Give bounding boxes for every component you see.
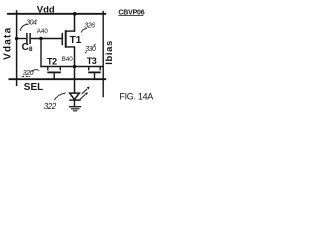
leader for 322 <box>54 93 66 100</box>
LED D1 triangle <box>70 93 80 99</box>
wire Ibias line <box>102 11 104 98</box>
LED emission arrow 2 <box>80 95 85 100</box>
leader for 326 <box>81 29 87 33</box>
node A40 junction dot <box>39 37 42 40</box>
svg-text:A40: A40 <box>37 28 49 35</box>
wire node B40 horizontal <box>40 66 103 68</box>
wire LED cathode to ground <box>74 100 76 106</box>
transistor T1 gate bar <box>61 33 63 45</box>
svg-text:CBVP06: CBVP06 <box>118 9 144 16</box>
svg-text:326: 326 <box>84 22 95 29</box>
svg-text:320: 320 <box>23 70 34 77</box>
LED emission arrow 1 <box>82 89 87 94</box>
svg-text:322: 322 <box>44 102 57 111</box>
LED emission arrowhead 2 <box>85 92 88 95</box>
wire Vdata data line <box>16 10 18 86</box>
tick marks under 320 <box>22 76 24 77</box>
svg-text:B40: B40 <box>62 56 74 63</box>
wire T1 source lead to Vdd <box>66 30 76 32</box>
wire T3 gate lead to SEL <box>94 72 96 79</box>
leader for 320 <box>32 70 39 72</box>
ground <box>69 106 81 108</box>
wire A40 branch to T2 <box>40 39 42 68</box>
wire SEL line <box>9 78 107 80</box>
node B40 junction dot <box>73 65 77 69</box>
leader for 330 <box>94 44 96 46</box>
svg-text:C8: C8 <box>22 42 33 53</box>
wire T1 drain lead down to LED <box>66 46 76 48</box>
wire Vdd rail <box>7 13 106 15</box>
junction dot Vdd-Vdata <box>15 13 18 16</box>
svg-text:T3: T3 <box>87 56 97 66</box>
transistor T2 source/drain stubs <box>47 67 49 71</box>
svg-text:SEL: SEL <box>24 82 43 93</box>
LED emission arrowhead 1 <box>87 86 90 89</box>
underline of CBVP06 <box>118 14 143 16</box>
capacitor C8 plates <box>26 33 28 44</box>
junction dot Vdd-T1 source <box>73 12 77 16</box>
svg-text:Vdd: Vdd <box>37 5 55 16</box>
transistor T2 gate bar <box>47 71 61 73</box>
leader for 304 <box>20 24 28 31</box>
wire T2 gate lead to SEL <box>53 72 55 79</box>
svg-text:Ibias: Ibias <box>104 40 115 65</box>
svg-text:FIG. 14A: FIG. 14A <box>119 91 153 101</box>
transistor T3 gate bar <box>88 71 101 73</box>
wire capacitor wire node A40 <box>17 38 27 40</box>
svg-text:330: 330 <box>85 46 96 53</box>
svg-text:T2: T2 <box>47 57 57 67</box>
svg-text:T1: T1 <box>70 35 82 46</box>
svg-text:Vdata: Vdata <box>3 27 14 60</box>
junction dot Vdata-cap <box>15 37 18 40</box>
transistor T1 channel bar <box>65 30 67 48</box>
LED D1 cathode bar <box>69 99 80 101</box>
svg-text:304: 304 <box>26 20 37 27</box>
transistor T3 source/drain stubs <box>88 67 90 71</box>
